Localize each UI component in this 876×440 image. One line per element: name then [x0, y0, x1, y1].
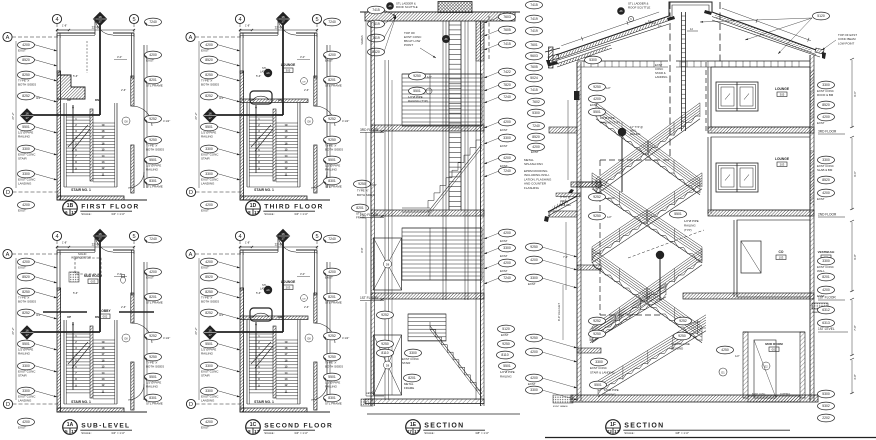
right corridor wall (FIRST FLOOR) [143, 45, 145, 188]
svg-text:7419: 7419 [530, 17, 538, 21]
S2 interior partition lower [733, 220, 735, 297]
svg-text:16: 16 [25, 112, 29, 116]
grid line row A (SUB-LEVEL) [12, 253, 61, 255]
left wall lower hatched (FIRST FLOOR) [57, 71, 61, 200]
svg-text:5: 5 [315, 234, 318, 240]
svg-text:MUD ROOM: MUD ROOM [84, 274, 102, 278]
svg-text:17: 17 [414, 429, 419, 434]
svg-text:5501: 5501 [594, 383, 602, 387]
svg-text:LOBBY: LOBBY [99, 309, 111, 313]
S1 roof slab hatched [365, 12, 515, 21]
callout 5501 right (SUB-LEVEL) [145, 373, 162, 381]
S1 callout 7240 y171 [499, 167, 516, 175]
top dimension line (SUB-LEVEL) [57, 246, 134, 248]
svg-text:LANDING: LANDING [201, 399, 215, 403]
S1 leader 7415 y44 [484, 44, 499, 50]
leader right 9252 (SUB-LEVEL) [145, 336, 147, 340]
S2 wall head box [574, 91, 580, 100]
svg-text:SECTION: SECTION [424, 423, 464, 430]
svg-text:8201: 8201 [356, 206, 364, 210]
leader right 9252 (SECOND FLOOR) [324, 336, 326, 340]
svg-text:STAIR & LANDING: STAIR & LANDING [590, 371, 615, 375]
S1 callout 7820 y85 [499, 81, 516, 89]
svg-text:16: 16 [281, 15, 285, 19]
svg-text:7415: 7415 [530, 88, 538, 92]
svg-text:5501: 5501 [149, 158, 157, 162]
callout 4200 left (THIRD FLOOR) [201, 41, 218, 49]
S2 callout 3300 top [585, 56, 602, 64]
leader right 8201 (SUB-LEVEL) [145, 297, 147, 301]
top wall right segment (FIRST FLOOR) [113, 32, 134, 34]
stair treads right run (FIRST FLOOR) [93, 122, 115, 124]
callout 4200 left (FIRST FLOOR) [18, 201, 35, 209]
svg-text:3/4" = 1'-0": 3/4" = 1'-0" [111, 212, 125, 216]
S1 top-right callout 7415 [526, 86, 543, 94]
top wall left segment (SUB-LEVEL) [57, 249, 95, 251]
svg-text:9250: 9250 [593, 85, 601, 89]
svg-text:9252: 9252 [679, 319, 687, 323]
svg-text:STL: STL [262, 283, 267, 287]
svg-text:17: 17 [407, 429, 412, 434]
ladder hatch symbol (THIRD FLOOR) [250, 91, 272, 104]
door swing arc top (SUB-LEVEL) [95, 234, 113, 252]
svg-text:1/2": 1/2" [427, 75, 432, 79]
svg-text:3300: 3300 [22, 147, 30, 151]
svg-text:FRAME: FRAME [356, 216, 366, 220]
svg-text:BOTH SIDES: BOTH SIDES [201, 83, 219, 87]
svg-text:EXST: EXST [528, 382, 536, 386]
svg-text:STL: STL [262, 66, 267, 70]
svg-text:9250: 9250 [530, 336, 538, 340]
svg-text:5501: 5501 [328, 158, 336, 162]
right wall upper (FIRST FLOOR) [132, 33, 135, 78]
callout 8252 left (THIRD FLOOR) [201, 92, 218, 100]
S1 mid callout 4200 [528, 143, 545, 151]
S1 leader 7240 y171 [484, 171, 499, 177]
callout 4200 right (SUB-LEVEL) [145, 268, 162, 276]
svg-text:8520: 8520 [822, 178, 830, 182]
S2 left margin callout 9250 y247 [526, 243, 543, 251]
svg-text:4200: 4200 [530, 376, 538, 380]
svg-text:8520: 8520 [205, 275, 213, 279]
svg-text:17: 17 [25, 333, 29, 337]
interior wall band (SECOND FLOOR) [240, 316, 308, 320]
leader from callout y60 (SUB-LEVEL) [34, 277, 57, 284]
svg-text:2'-6": 2'-6" [304, 88, 309, 92]
svg-text:EXST: EXST [500, 128, 508, 132]
svg-text:5501: 5501 [674, 212, 682, 216]
overall vertical dimension (FIRST FLOOR) [15, 41, 17, 188]
leader from callout y60 (THIRD FLOOR) [217, 60, 240, 67]
stair direction line (FIRST FLOOR) [72, 105, 74, 173]
S2 grade hatch right [812, 303, 828, 309]
leader right 4200 (SECOND FLOOR) [324, 272, 326, 276]
svg-text:EXST: EXST [201, 49, 209, 53]
S1 left mid callout 9250 [354, 180, 371, 188]
svg-text:5501: 5501 [328, 375, 336, 379]
S2 stair black post 2 [656, 251, 664, 259]
S2 lounge dashed partition [705, 62, 707, 131]
svg-text:3/4": 3/4" [36, 313, 41, 317]
svg-text:5501: 5501 [205, 342, 213, 346]
svg-text:3300: 3300 [205, 172, 213, 176]
S2 stairs roof-3rd up balusters [595, 179, 597, 193]
S2 stairs roof-3rd down rails [596, 119, 700, 195]
door swing arc top (SECOND FLOOR) [278, 234, 296, 252]
top wall right segment (THIRD FLOOR) [296, 32, 317, 34]
S1 leader 4200 y158 [484, 158, 499, 164]
leader from callout y174 (FIRST FLOOR) [34, 174, 57, 181]
svg-text:EXST: EXST [325, 276, 333, 280]
S1 floor slab 2ND FLOOR [371, 210, 484, 216]
S1 grade hatch left [361, 399, 373, 406]
svg-text:STL FRAME: STL FRAME [146, 185, 163, 189]
svg-text:ROOF SCUTTLE: ROOF SCUTTLE [628, 6, 650, 10]
right wall upper (SECOND FLOOR) [315, 250, 318, 295]
svg-text:17: 17 [71, 210, 76, 215]
section cut line (FIRST FLOOR) [99, 25, 101, 115]
svg-text:D8: D8 [386, 262, 390, 266]
callout 5501 right (THIRD FLOOR) [324, 156, 341, 164]
right wall hatched lower (FIRST FLOOR) [131, 145, 134, 193]
svg-text:STL FRAME: STL FRAME [325, 84, 342, 88]
callout 3300 left (FIRST FLOOR) [18, 145, 35, 153]
svg-text:7240: 7240 [149, 20, 157, 24]
svg-text:3300: 3300 [22, 389, 30, 393]
svg-text:SLAB & BM: SLAB & BM [817, 168, 833, 172]
S2 callout 5501 upper [670, 210, 687, 218]
svg-text:7240: 7240 [328, 237, 336, 241]
svg-text:5501: 5501 [503, 364, 511, 368]
S1 callout 3300 y248 [499, 244, 516, 252]
left wall upper (SUB-LEVEL) [57, 250, 60, 290]
S2 callout 9252 mid [675, 317, 692, 325]
svg-text:3 1/2": 3 1/2" [608, 196, 615, 200]
svg-text:8301: 8301 [328, 179, 336, 183]
S2 stairs ground up steps [598, 328, 706, 394]
svg-text:EXST: EXST [528, 282, 536, 286]
svg-text:EXIST CONC: EXIST CONC [752, 394, 766, 396]
svg-text:4200: 4200 [532, 145, 540, 149]
svg-text:5'-6": 5'-6" [256, 291, 261, 295]
svg-text:7240: 7240 [503, 276, 511, 280]
S1 leader 7422 y72 [484, 72, 499, 78]
S2 eave leader right [822, 40, 836, 50]
S2 2nd floor left slab [571, 182, 601, 187]
top wall right segment (SECOND FLOOR) [296, 249, 317, 251]
svg-text:17: 17 [208, 333, 212, 337]
mid wall sub (SUB-LEVEL) [43, 311, 87, 313]
svg-text:5501: 5501 [149, 375, 157, 379]
S1 callout 7415 y44 [499, 40, 516, 48]
S2 interior ladder [681, 12, 683, 131]
svg-text:5120: 5120 [817, 14, 825, 18]
svg-text:VARIES: VARIES [360, 35, 364, 45]
svg-text:RAILING (TYP): RAILING (TYP) [408, 99, 428, 103]
svg-text:1/2": 1/2" [693, 335, 698, 339]
svg-text:1B: 1B [67, 203, 74, 209]
S2 eave end dam [549, 47, 554, 68]
svg-text:5501: 5501 [22, 125, 30, 129]
stair treads left run (FIRST FLOOR) [66, 116, 90, 118]
svg-text:9250: 9250 [149, 355, 157, 359]
svg-text:SUB-LEVEL: SUB-LEVEL [81, 423, 130, 430]
section marker diamond top (SUB-LEVEL) [94, 230, 107, 243]
landing line (THIRD FLOOR) [247, 186, 300, 188]
S1 top-right callout 9603 [526, 52, 543, 60]
S2 stairs mezz up-left steps [590, 294, 666, 340]
stair direction line (SECOND FLOOR) [255, 322, 257, 390]
svg-text:4200: 4200 [530, 258, 538, 262]
svg-text:9250: 9250 [502, 342, 510, 346]
S2 lounge 305 window unit [716, 82, 758, 111]
overall vertical dimension (THIRD FLOOR) [198, 41, 200, 188]
top dimension line (THIRD FLOOR) [240, 29, 317, 31]
callout 4200 left (SECOND FLOOR) [201, 258, 218, 266]
svg-text:1/2": 1/2" [606, 86, 611, 90]
overall vertical dimension (SECOND FLOOR) [198, 258, 200, 400]
grid line col 4 (SECOND FLOOR) [239, 241, 241, 254]
svg-text:4: 4 [55, 17, 58, 23]
leader right 4200 (SUB-LEVEL) [145, 272, 147, 276]
svg-text:4200: 4200 [149, 53, 157, 57]
mud room hatch block (SUB-LEVEL) [69, 272, 79, 282]
svg-text:5300: 5300 [822, 392, 830, 396]
svg-text:7240: 7240 [328, 20, 336, 24]
door swing arc bottom right (THIRD FLOOR) [311, 172, 327, 188]
svg-text:STL FRAME: STL FRAME [325, 185, 342, 189]
svg-text:A: A [6, 35, 10, 41]
callout 8201 right (THIRD FLOOR) [324, 76, 341, 84]
svg-text:RAILING: RAILING [146, 385, 159, 389]
S2 right callout 4200 y117 [818, 113, 835, 121]
S2 right story dims [851, 60, 853, 128]
door leaf circle right (SECOND FLOOR) [305, 334, 313, 342]
svg-text:POINT: POINT [404, 43, 413, 47]
svg-text:7240: 7240 [503, 95, 511, 99]
svg-text:CO: CO [779, 250, 784, 254]
S1 floor slab 1ST FLOOR [371, 293, 484, 299]
svg-text:4200: 4200 [503, 156, 511, 160]
grid bubble D (SUB-LEVEL) [3, 399, 12, 408]
svg-text:D8: D8 [386, 363, 390, 367]
svg-text:7415: 7415 [372, 8, 380, 12]
S2 stairs 2nd-1st up balusters [591, 327, 593, 341]
leader from callout y96 (THIRD FLOOR) [217, 96, 240, 103]
svg-text:1/2"Ø PIPE: 1/2"Ø PIPE [500, 370, 515, 374]
stair enclosure left stringer (SUB-LEVEL) [63, 320, 65, 404]
leader right 7240 (SECOND FLOOR) [324, 239, 326, 243]
leader from callout y127 (FIRST FLOOR) [34, 127, 57, 134]
svg-text:9252: 9252 [593, 319, 601, 323]
S2 stairs 3rd-2nd down rails [592, 189, 702, 263]
leader right 8301 (SECOND FLOOR) [324, 398, 326, 402]
S2 stair black post [618, 128, 626, 136]
stair right stringer (FIRST FLOOR) [116, 103, 118, 187]
stair break diagonal (SUB-LEVEL) [68, 342, 88, 364]
section marker diamond top (THIRD FLOOR) [277, 13, 290, 26]
S2 lounge room 305 box [711, 67, 810, 127]
svg-text:1'-8": 1'-8" [62, 241, 67, 245]
S1 left-edge leader 7419 [384, 16, 396, 38]
S2 right callout 3300 y261 [818, 257, 835, 265]
callout 8301 right (THIRD FLOOR) [324, 177, 341, 185]
svg-text:5: 5 [132, 234, 135, 240]
S2 landing slab mid3 [577, 348, 601, 353]
S2 dashed boundary [600, 159, 670, 161]
svg-text:12: 12 [607, 429, 612, 434]
svg-text:SECOND FLOOR: SECOND FLOOR [264, 423, 333, 430]
svg-text:9250: 9250 [678, 334, 686, 338]
svg-text:EXIST GRADE: EXIST GRADE [553, 405, 568, 408]
S2 right callout 8520 y105 [818, 101, 835, 109]
svg-text:17: 17 [208, 116, 212, 120]
S2 stairs ground up rails [598, 331, 706, 397]
grid line col 5 (THIRD FLOOR) [316, 24, 318, 37]
svg-text:8110: 8110 [501, 353, 508, 357]
svg-text:8301: 8301 [328, 396, 336, 400]
S2 mud room door circle [762, 362, 770, 370]
svg-text:4: 4 [238, 234, 241, 240]
callout 4200 left (SUB-LEVEL) [18, 258, 35, 266]
leader right 9250 (THIRD FLOOR) [324, 140, 326, 144]
svg-text:2202: 2202 [822, 416, 830, 420]
leader from callout y75 (THIRD FLOOR) [217, 75, 240, 82]
S2 stairs 2nd-1st down rails [592, 265, 702, 343]
S2 left dims [565, 222, 567, 290]
svg-text:4200: 4200 [328, 53, 336, 57]
bottom wall (SECOND FLOOR) [240, 408, 307, 412]
callout 4200 right (FIRST FLOOR) [145, 51, 162, 59]
S1 callout 9252 left [377, 311, 394, 319]
callout 9252 right (SUB-LEVEL) [145, 332, 162, 340]
svg-text:EXST: EXST [18, 426, 26, 430]
svg-text:4: 4 [55, 234, 58, 240]
leader from callout y45 (SECOND FLOOR) [217, 262, 240, 269]
S2 left margin callout 4200 y378 [526, 374, 543, 382]
bottom wall (SUB-LEVEL) [57, 408, 124, 412]
S2 stairs roof-3rd up rails [596, 119, 700, 195]
top dim sub ticks (THIRD FLOOR) [240, 29, 252, 31]
leader from callout y75 (SUB-LEVEL) [34, 292, 57, 299]
svg-text:8252: 8252 [205, 94, 213, 98]
svg-text:3300: 3300 [205, 364, 213, 368]
svg-text:7602: 7602 [532, 100, 540, 104]
S2 left callout 9250 y216 [589, 212, 606, 220]
grid line col 5 (FIRST FLOOR) [133, 24, 135, 37]
S2 left margin callout 3300 y278 [526, 274, 543, 282]
svg-text:4200: 4200 [530, 350, 538, 354]
S2 stairs roof-3rd up steps [596, 116, 700, 192]
right wall upper (SUB-LEVEL) [132, 250, 135, 295]
callout 5501 left (SUB-LEVEL) [18, 340, 35, 348]
grid line row D (FIRST FLOOR) [13, 191, 62, 193]
svg-text:16: 16 [208, 112, 212, 116]
svg-text:STAIR NO. 1: STAIR NO. 1 [254, 188, 274, 192]
door leaf circle right (THIRD FLOOR) [305, 117, 313, 125]
svg-text:1/2"Ø PIPE: 1/2"Ø PIPE [604, 388, 619, 392]
svg-text:3/4": 3/4" [372, 183, 377, 187]
svg-text:5501: 5501 [22, 342, 30, 346]
svg-text:STL FRAME: STL FRAME [325, 402, 342, 406]
callout 9250 right (FIRST FLOOR) [145, 136, 162, 144]
right corridor wall (SUB-LEVEL) [143, 262, 145, 400]
stair right stringer (SUB-LEVEL) [116, 320, 118, 404]
svg-text:RAILING: RAILING [560, 203, 571, 207]
title block (SUB-LEVEL) [63, 420, 78, 435]
top wall left segment (THIRD FLOOR) [240, 32, 278, 34]
grid line col 5 (SUB-LEVEL) [133, 241, 135, 254]
S2 roof right hatch band [714, 14, 812, 52]
svg-text:1C: 1C [250, 422, 257, 428]
svg-text:LANDING: LANDING [655, 75, 667, 79]
svg-text:9252: 9252 [328, 117, 336, 121]
svg-text:4200: 4200 [328, 270, 336, 274]
svg-text:INTERCEPTOR: INTERCEPTOR [71, 256, 91, 260]
right wall hatched lower (SECOND FLOOR) [314, 362, 317, 410]
svg-text:9250: 9250 [328, 138, 336, 142]
leader right 8201 (THIRD FLOOR) [324, 80, 326, 84]
svg-text:7415: 7415 [503, 42, 511, 46]
svg-text:8250: 8250 [22, 73, 30, 77]
S1 stair small run story 4 [408, 313, 446, 315]
title block (FIRST FLOOR) [63, 201, 78, 216]
stair break diagonal (FIRST FLOOR) [68, 125, 88, 147]
svg-text:3RD FLOOR: 3RD FLOOR [818, 130, 837, 134]
S1 leader 4200 y263 [484, 263, 499, 269]
svg-text:003: 003 [91, 280, 96, 284]
svg-text:3RD FLOOR: 3RD FLOOR [360, 128, 379, 132]
stair center divider (FIRST FLOOR) [90, 109, 93, 181]
leader right 4200 (THIRD FLOOR) [324, 55, 326, 59]
svg-text:(TYP) @: (TYP) @ [560, 195, 571, 199]
S2 lounge room 203 box [711, 137, 810, 210]
top wall left segment (FIRST FLOOR) [57, 32, 95, 34]
svg-text:5302: 5302 [822, 404, 830, 408]
svg-text:7605: 7605 [503, 28, 511, 32]
svg-text:EXST: EXST [201, 209, 209, 213]
callout 3300 left (SECOND FLOOR) [201, 387, 218, 395]
svg-text:27'-2": 27'-2" [194, 112, 198, 119]
S1 left-edge leader 7415 [384, 10, 396, 16]
door swing arc top (THIRD FLOOR) [278, 17, 296, 35]
door swing arc top (FIRST FLOOR) [95, 17, 113, 35]
S2 stairs 3rd-2nd up rails [592, 189, 702, 263]
S1 callout 3300 y138 [499, 134, 516, 142]
svg-text:5300: 5300 [532, 111, 540, 115]
svg-text:RAILING: RAILING [630, 132, 640, 136]
callout 8252 left (SUB-LEVEL) [18, 309, 35, 317]
svg-text:5: 5 [315, 17, 318, 23]
svg-text:EXST: EXST [817, 121, 825, 125]
grid bubble 5 (SECOND FLOOR) [312, 231, 321, 240]
svg-text:9250: 9250 [593, 332, 601, 336]
S2 left margin leader 3300 y390 [542, 390, 577, 400]
svg-text:7'-6": 7'-6" [563, 255, 568, 259]
svg-text:D: D [189, 190, 193, 196]
grid line row D (THIRD FLOOR) [196, 191, 245, 193]
callout 4200 right (SECOND FLOOR) [324, 268, 341, 276]
leader from callout y60 (SECOND FLOOR) [217, 277, 240, 284]
leader from callout y75 (SECOND FLOOR) [217, 292, 240, 299]
svg-text:EXST: EXST [501, 333, 509, 337]
svg-text:8201: 8201 [149, 78, 157, 82]
svg-text:STAIR NO. 1: STAIR NO. 1 [71, 400, 91, 404]
svg-text:SCALE :: SCALE : [424, 431, 435, 435]
callout 9250 right (THIRD FLOOR) [324, 136, 341, 144]
svg-text:16: 16 [98, 232, 102, 236]
callout 5501 right (FIRST FLOOR) [145, 156, 162, 164]
